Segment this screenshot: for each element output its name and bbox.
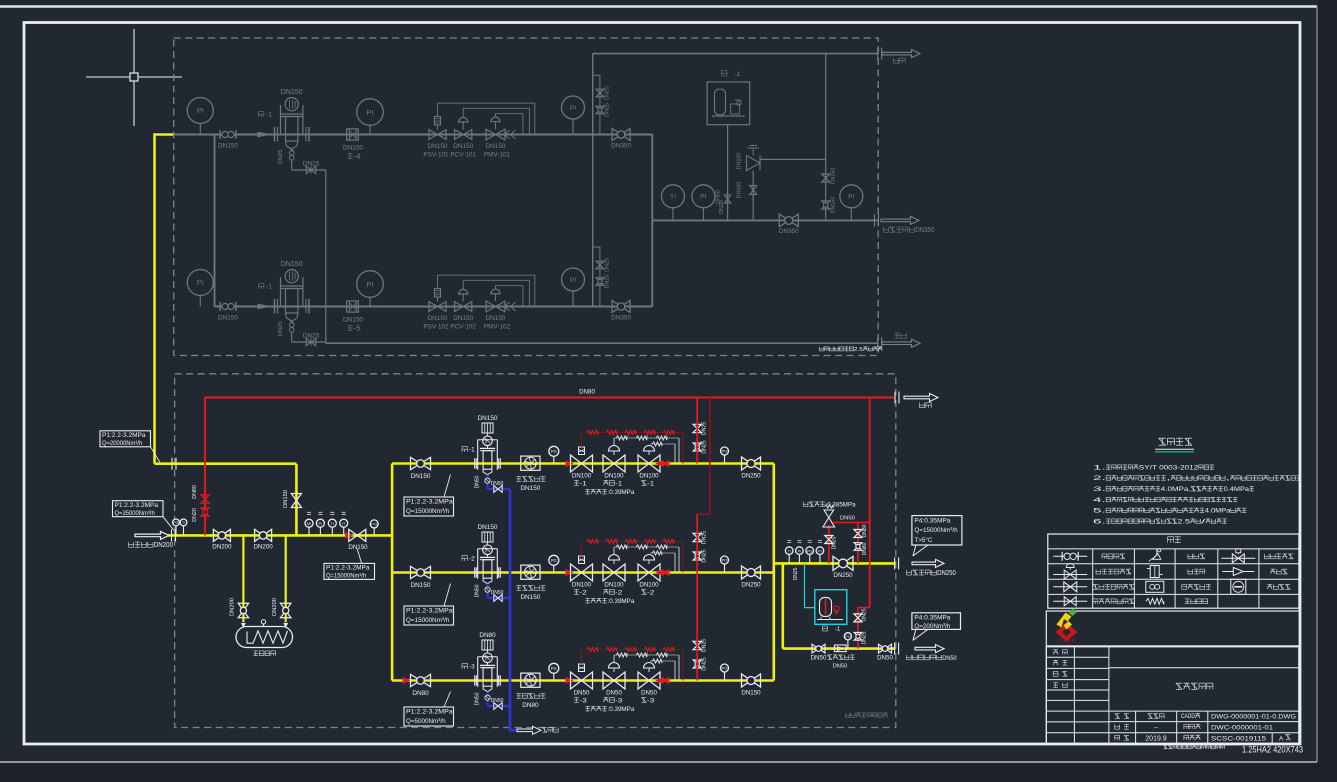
- svg-text:Q=15000Nm³/h: Q=15000Nm³/h: [406, 617, 449, 624]
- svg-text:-2: -2: [647, 589, 654, 596]
- branch 1 pilot spring lines: [582, 430, 684, 463]
- svg-text:PI: PI: [319, 521, 323, 526]
- wire yellow tie-in from existing station: [155, 133, 174, 464]
- svg-text:PI: PI: [700, 194, 706, 201]
- svg-text:DN100: DN100: [639, 473, 659, 480]
- svg-text:DN200: DN200: [212, 544, 232, 551]
- svg-text:DN100: DN100: [737, 153, 743, 170]
- pressure note box P4 downstream: [912, 516, 962, 556]
- svg-text:DN150: DN150: [428, 143, 448, 150]
- svg-text:--: --: [1154, 725, 1158, 731]
- svg-text:DN200: DN200: [253, 544, 273, 551]
- svg-text:2.: 2.: [1093, 475, 1106, 482]
- svg-text:DN150: DN150: [453, 143, 473, 150]
- branch 3 gauge PO: [721, 664, 729, 681]
- train 2 monitor valve PMV-102: [484, 289, 516, 330]
- selfuse arrow: [915, 645, 944, 653]
- svg-text:DN50: DN50: [811, 655, 827, 662]
- wire red riser outlet area: [869, 398, 871, 608]
- svg-text:DN80: DN80: [862, 524, 868, 537]
- blue outlet arrow: [517, 726, 541, 734]
- svg-text:DN150: DN150: [520, 485, 540, 492]
- svg-text:TI: TI: [788, 549, 791, 553]
- svg-text:-4: -4: [353, 153, 360, 161]
- branch 1 outlet valve DN250: [741, 457, 761, 480]
- notes heading 流程说明: [1155, 438, 1194, 452]
- svg-text:CADD: CADD: [1181, 713, 1195, 720]
- svg-text:-1: -1: [835, 627, 841, 633]
- branch 1 regulator labels: [572, 473, 659, 488]
- svg-text:DN50: DN50: [491, 481, 504, 487]
- train 2 pressure gauge PI 2: [357, 271, 384, 307]
- svg-text:Q=200Nm³/h: Q=200Nm³/h: [914, 623, 950, 630]
- train 1 outlet ball valve DN350: [611, 129, 631, 150]
- legend reducer symbol: [1222, 568, 1254, 576]
- branch 2 blue drain to trunk: [475, 584, 511, 602]
- svg-text:3.: 3.: [1093, 486, 1106, 493]
- station capacity note: [819, 347, 882, 353]
- svg-text:DN150: DN150: [411, 473, 431, 480]
- svg-text:DN25: DN25: [862, 608, 868, 621]
- branch 1 inlet valve DN150: [411, 457, 431, 480]
- svg-text:DN150: DN150: [411, 582, 431, 589]
- svg-text:P1:2.2-3.2MPa: P1:2.2-3.2MPa: [406, 709, 453, 716]
- train 1 pressure gauge PI: [187, 98, 213, 135]
- svg-text:DN200: DN200: [154, 540, 173, 549]
- svg-text:Q=15000Nm³/h: Q=15000Nm³/h: [406, 508, 449, 515]
- svg-text:DN80: DN80: [479, 632, 496, 639]
- red inlet vent valves: [192, 485, 209, 522]
- svg-text:-1: -1: [647, 480, 654, 487]
- svg-text:DN25: DN25: [702, 639, 708, 652]
- svg-text:DN25: DN25: [702, 531, 708, 544]
- svg-text:DN50: DN50: [840, 516, 855, 522]
- outlet arrow: [912, 559, 944, 567]
- svg-text:PO: PO: [845, 635, 850, 639]
- title block main grid: [1109, 668, 1299, 744]
- svg-text:DN25: DN25: [605, 103, 611, 117]
- svg-text:4.: 4.: [1093, 497, 1106, 504]
- svg-text:P1:2.2-3.2MPa: P1:2.2-3.2MPa: [406, 499, 453, 506]
- train 2 flow arrow: [258, 304, 269, 308]
- svg-text:DN150: DN150: [453, 315, 473, 322]
- vent header arrow: [904, 394, 938, 402]
- svg-text:PI: PI: [197, 278, 204, 287]
- branch 2 flowmeter 旋精流量计: [516, 565, 545, 601]
- svg-text:PI: PI: [366, 280, 373, 289]
- svg-text:DN150: DN150: [281, 261, 303, 268]
- branch 3 inlet valve DN80: [411, 674, 431, 697]
- svg-text:DN150: DN150: [831, 168, 837, 185]
- branch 1 regulator valves: [571, 446, 661, 473]
- svg-text:-3: -3: [615, 697, 622, 704]
- trains outlet riser: [651, 135, 653, 307]
- svg-text:PMV-102: PMV-102: [484, 324, 511, 331]
- branch 2 regulator valves: [571, 555, 661, 582]
- vent header pipe: [593, 53, 879, 55]
- skid dashed boundary: [175, 374, 896, 728]
- svg-text:PI: PI: [366, 108, 373, 117]
- skid scope label: [845, 713, 887, 717]
- svg-text:DN25: DN25: [793, 567, 799, 580]
- vent header risers with DN25 valves: [593, 54, 611, 307]
- legend insulating joint symbol: [1231, 579, 1246, 594]
- svg-text:P1:2.2-3.2MPa: P1:2.2-3.2MPa: [102, 432, 146, 439]
- svg-text:,: ,: [1166, 475, 1171, 482]
- branch 1 set pressure note: [585, 489, 634, 496]
- train 1 flow arrow: [258, 132, 269, 136]
- manifold outlet break: [875, 214, 879, 226]
- train 1 flowmeter 计-4: [343, 129, 363, 161]
- manifold ball valve DN350: [779, 214, 799, 235]
- paper bottom edge: [0, 761, 1317, 763]
- wire yellow drop to main: [295, 464, 298, 536]
- svg-text:Q=20000Nm³/h: Q=20000Nm³/h: [102, 440, 143, 447]
- branch 2 regulator labels: [572, 582, 659, 597]
- svg-text:DN50: DN50: [491, 590, 504, 596]
- branch 1 red marker 2: [566, 461, 573, 467]
- svg-text:-1: -1: [580, 480, 587, 487]
- svg-text:DWC-0000001-01: DWC-0000001-01: [1211, 725, 1273, 732]
- svg-text:PT: PT: [818, 549, 823, 553]
- branch 3 vent valves DN25: [693, 639, 708, 671]
- svg-text:DN350: DN350: [611, 143, 631, 150]
- pressure note box Q=15000 main: [324, 549, 375, 580]
- svg-text:TI: TI: [331, 521, 335, 526]
- paper right edge: [1316, 7, 1318, 763]
- branch 2 set pressure note: [585, 598, 634, 605]
- inlet arrow: [135, 531, 169, 539]
- svg-text:DN50: DN50: [942, 655, 957, 662]
- paper size note: [1242, 745, 1303, 755]
- wire yellow upper run: [155, 462, 297, 465]
- svg-text:DN25: DN25: [702, 657, 708, 670]
- selfuse label: [907, 655, 957, 662]
- manifold pressure gauge PI: [692, 185, 715, 221]
- svg-text:DN50: DN50: [475, 692, 481, 705]
- odorizer feed line: [716, 125, 731, 221]
- svg-text:-2: -2: [580, 589, 587, 596]
- svg-text:DN150: DN150: [343, 145, 363, 152]
- svg-text:DN150: DN150: [486, 143, 506, 150]
- svg-text:-1: -1: [735, 71, 741, 78]
- svg-text:4.0MPa: 4.0MPa: [1205, 508, 1231, 515]
- svg-text:T>5°C: T>5°C: [914, 536, 932, 544]
- svg-text:DN50: DN50: [475, 475, 481, 488]
- svg-text:SCSC-0019115: SCSC-0019115: [1211, 735, 1266, 742]
- inlet gauges: [173, 519, 187, 535]
- process notes text: [1093, 464, 1301, 525]
- wire yellow outlet drop: [774, 563, 783, 648]
- branch 2 red marker 2: [566, 570, 573, 576]
- svg-text:PG: PG: [551, 666, 557, 671]
- svg-text:-3: -3: [580, 697, 587, 704]
- svg-text:JL.GAS: JL.GAS: [1057, 638, 1075, 643]
- legend safety shutoff valve symbol: [1221, 549, 1255, 563]
- svg-text:/: /: [1201, 518, 1206, 525]
- svg-text:DN25: DN25: [303, 161, 320, 168]
- svg-text:6.: 6.: [1093, 518, 1106, 525]
- legend needle valve symbol: [1149, 549, 1161, 562]
- legend shutoff vent valve symbol: [1053, 597, 1087, 606]
- branch 1 blue drain to trunk: [475, 475, 511, 493]
- svg-text:DN25: DN25: [702, 422, 708, 435]
- svg-text:PI: PI: [570, 105, 576, 112]
- svg-text:TI: TI: [182, 521, 185, 525]
- svg-text:SY/T 0003-2012: SY/T 0003-2012: [1139, 464, 1199, 471]
- wire red riser 2: [697, 398, 710, 573]
- svg-text:0.4MPa: 0.4MPa: [1224, 486, 1250, 493]
- selfuse valve DN50 no.1: [811, 644, 827, 661]
- train 1 pressure gauge PI 3: [562, 96, 585, 135]
- svg-text:DN100: DN100: [572, 582, 592, 589]
- branch 1 red marker 3: [657, 461, 670, 467]
- downstream manifold pipe: [652, 219, 878, 221]
- train 2 outlet ball valve DN350: [611, 301, 631, 322]
- manifold thermometer TI: [662, 185, 685, 221]
- train 2 main pipe: [215, 306, 653, 308]
- company logo: [1056, 609, 1078, 643]
- vent outlet label: [894, 58, 906, 63]
- legend self-operated regulator symbol: [1053, 564, 1087, 580]
- train 2 pressure gauge PI: [187, 270, 213, 307]
- svg-text:-3: -3: [647, 697, 654, 704]
- svg-text:1.: 1.: [1093, 464, 1106, 471]
- wire red vent header DN80: [205, 397, 896, 399]
- branch 2 inlet valve DN150: [411, 566, 431, 589]
- svg-text:PO: PO: [722, 558, 728, 563]
- main gauge PO: [370, 520, 378, 536]
- svg-text:PG: PG: [551, 449, 557, 454]
- pressure note box Q=35000: [113, 501, 175, 531]
- svg-text:DN350: DN350: [611, 315, 631, 322]
- bypass riser with DN150 valves: [822, 54, 837, 221]
- electric heater 电加热器: [236, 620, 293, 656]
- svg-text:DN50: DN50: [716, 190, 722, 204]
- svg-text:PO: PO: [722, 449, 728, 454]
- logo box: [1046, 611, 1300, 646]
- svg-text:DN80: DN80: [862, 542, 868, 555]
- svg-text:DN150: DN150: [218, 315, 238, 322]
- svg-text:A: A: [1279, 735, 1284, 742]
- train 2 gas filter separator 分-1: [259, 261, 310, 321]
- svg-text:1.25HA2 420X743: 1.25HA2 420X743: [1242, 745, 1303, 755]
- svg-text:IT: IT: [342, 521, 346, 526]
- svg-text:-1: -1: [469, 447, 475, 454]
- valve DN150 on drop: [283, 490, 301, 508]
- manifold pressure gauge PI 2: [840, 185, 863, 221]
- svg-text:DN25: DN25: [605, 86, 611, 100]
- train 2 drain riser: [325, 342, 327, 343]
- selfuse valve DN50 no.2: [877, 644, 893, 661]
- svg-text:DN80: DN80: [192, 485, 198, 499]
- svg-text::0.39MPa: :0.39MPa: [608, 706, 635, 713]
- branch 3 set pressure note: [585, 706, 634, 713]
- legend labels: [1093, 554, 1293, 604]
- svg-text:DN50: DN50: [833, 664, 848, 670]
- branch 2 gauge PG: [549, 555, 559, 572]
- branch 1 pipe: [392, 462, 774, 465]
- heater valve 1 DN200: [230, 598, 249, 618]
- branch 3 outlet valve DN150: [741, 674, 761, 697]
- svg-text:PO: PO: [722, 666, 728, 671]
- branch 3 red marker 3: [657, 678, 670, 684]
- svg-text:DN100: DN100: [604, 582, 624, 589]
- svg-text:DN25: DN25: [862, 631, 868, 644]
- title block outline: [1046, 647, 1299, 744]
- odorizer cyan link: [793, 563, 815, 607]
- svg-text:PI: PI: [197, 106, 204, 115]
- svg-text:PO: PO: [174, 521, 179, 525]
- svg-text:4.0MPa,: 4.0MPa,: [1161, 486, 1191, 493]
- svg-text::0.39MPa: :0.39MPa: [608, 598, 635, 605]
- train 1 main pipe: [174, 134, 653, 136]
- svg-text:DN100: DN100: [639, 582, 659, 589]
- svg-text:P4:0.35MPa: P4:0.35MPa: [914, 615, 950, 622]
- drain outlet label: [895, 333, 907, 338]
- outlet valve DN250: [833, 556, 853, 579]
- svg-text:DN25: DN25: [702, 440, 708, 453]
- train 2 safety shutoff valve PSV-102: [423, 289, 449, 331]
- svg-text:-2: -2: [469, 556, 475, 563]
- manifold label DN20: [719, 200, 725, 214]
- branch 1 gauge PG: [549, 446, 559, 463]
- branch 3 regulator valves: [571, 663, 661, 689]
- valve DN150 main: [348, 529, 368, 551]
- svg-text:DN50: DN50: [641, 690, 657, 697]
- branch 3 pilot spring lines: [582, 647, 684, 680]
- branch 3 gauge PG: [549, 663, 559, 680]
- vent header out label: [920, 403, 932, 408]
- stage note below frame: [1163, 745, 1224, 749]
- wire red riser 3: [696, 573, 698, 681]
- check valve with flame arrestor DN100: [737, 146, 761, 221]
- legend filter symbol: [1147, 566, 1163, 578]
- train 2 flowmeter 计-5: [343, 301, 363, 333]
- svg-text:DN200: DN200: [272, 598, 278, 616]
- svg-text:DN150: DN150: [343, 317, 363, 324]
- svg-text:DN150: DN150: [348, 544, 368, 551]
- svg-text:DN80: DN80: [522, 702, 539, 709]
- vent header break: [895, 392, 899, 404]
- safety relief valve DN50: [803, 502, 856, 564]
- svg-text:DN350: DN350: [915, 225, 934, 234]
- svg-text:Q=35000Nm³/h: Q=35000Nm³/h: [115, 510, 156, 517]
- svg-text:DWG-0000001-01-0.DWG: DWG-0000001-01-0.DWG: [1211, 714, 1296, 721]
- svg-text:DN100: DN100: [737, 182, 743, 199]
- inlet label: [129, 540, 174, 549]
- branch 3 red marker 2: [566, 678, 573, 684]
- svg-text:,: ,: [1226, 475, 1231, 482]
- svg-text:DN100: DN100: [604, 473, 624, 480]
- wire red riser at inlet: [204, 398, 206, 536]
- svg-text:DN150: DN150: [831, 197, 837, 214]
- wire yellow selfuse pipe: [783, 647, 896, 650]
- svg-text:PCV-101: PCV-101: [450, 152, 476, 159]
- red flow marker main: [346, 533, 353, 539]
- branch 3 flowmeter 皮膜流量计: [516, 673, 545, 709]
- svg-text:-1: -1: [266, 284, 272, 291]
- wire yellow distribution manifold: [391, 464, 394, 681]
- svg-text:PO: PO: [371, 522, 377, 527]
- svg-text:DN200: DN200: [230, 598, 236, 616]
- svg-text:2.5: 2.5: [1177, 518, 1190, 525]
- svg-text:DN50: DN50: [491, 698, 504, 704]
- manifold outlet arrow: [881, 216, 919, 224]
- svg-text:DN80: DN80: [579, 389, 595, 396]
- svg-text:PCV-102: PCV-102: [450, 324, 476, 331]
- svg-text:DN250: DN250: [833, 572, 853, 579]
- svg-text:-2: -2: [615, 589, 622, 596]
- train 1 impulse sensing lines: [438, 103, 535, 134]
- svg-text:PMV-101: PMV-101: [484, 152, 511, 159]
- svg-text:DN50: DN50: [877, 655, 893, 662]
- svg-text:MI: MI: [307, 521, 311, 526]
- branch 2 pressure note box: [404, 584, 454, 626]
- pressure note box P4 selfuse: [912, 613, 961, 641]
- wire yellow collector: [772, 464, 775, 681]
- inlet break: [172, 529, 176, 541]
- svg-text::0.385MPa: :0.385MPa: [826, 502, 857, 509]
- branch 1 vent valves DN25: [693, 422, 708, 454]
- train 2 separator drain line with valve DN25: [278, 321, 326, 346]
- svg-text:-1: -1: [266, 112, 272, 119]
- svg-text:-5: -5: [353, 325, 360, 333]
- svg-text:DN150: DN150: [486, 315, 506, 322]
- train 2 inlet ball valve DN150: [218, 302, 238, 322]
- wire yellow outlet pipe: [783, 562, 896, 565]
- svg-text:P1:2.2-3.2MPa: P1:2.2-3.2MPa: [115, 502, 159, 509]
- title block left grid: [1046, 647, 1109, 744]
- branch 1 gauge PO: [721, 447, 729, 464]
- svg-text:DN50: DN50: [606, 690, 622, 697]
- train 1 inlet ball valve DN150: [218, 130, 238, 150]
- wire blue trunk: [510, 490, 517, 732]
- legend hand ball valve symbol: [1053, 552, 1087, 561]
- svg-text:DN50: DN50: [574, 690, 590, 697]
- svg-text:Q=15000Nm³/h: Q=15000Nm³/h: [326, 573, 367, 580]
- svg-text:PSV-101: PSV-101: [423, 152, 449, 159]
- drain header pipe: [326, 342, 878, 344]
- svg-text:PI: PI: [570, 277, 576, 284]
- valve DN200 no.2: [253, 529, 273, 550]
- branch 1 pressure note box: [404, 475, 454, 517]
- wire yellow main inlet: [168, 534, 392, 537]
- branch 3 red marker: [403, 678, 410, 684]
- train 2 impulse sensing lines: [438, 275, 535, 306]
- svg-text:DN25: DN25: [278, 322, 284, 337]
- svg-text:P1:2.2-3.2MPa: P1:2.2-3.2MPa: [326, 565, 370, 572]
- train 1 monitor valve PMV-101: [484, 117, 516, 158]
- valve DN200 no.1: [212, 529, 232, 550]
- svg-text:DN100: DN100: [572, 473, 592, 480]
- branch 3 regulator labels: [574, 690, 658, 705]
- svg-text:DN250: DN250: [937, 569, 956, 577]
- vent outlet arrow: [882, 50, 920, 58]
- svg-text:DN150: DN150: [741, 690, 761, 697]
- selfuse gauge PO: [844, 633, 851, 649]
- svg-text:Q=15000Nm³/h: Q=15000Nm³/h: [914, 527, 957, 534]
- top station dashed boundary: [174, 38, 879, 356]
- svg-text:2019.9: 2019.9: [1145, 736, 1167, 743]
- svg-text:DN25: DN25: [303, 333, 320, 340]
- branch 3 blue drain to trunk: [475, 692, 511, 710]
- svg-text:5.: 5.: [1093, 508, 1106, 515]
- regulator bypass line: [760, 158, 826, 160]
- outlet break: [895, 557, 899, 569]
- svg-text:DN80: DN80: [412, 690, 429, 697]
- svg-text::0.39MPa: :0.39MPa: [608, 489, 635, 496]
